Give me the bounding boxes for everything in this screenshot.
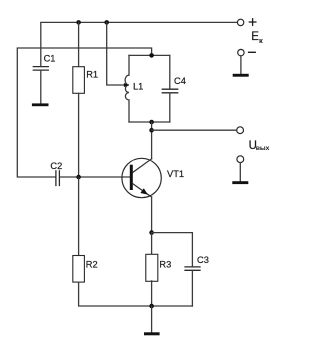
wire: R3 bottom lead [151,281,153,306]
svg-text:E: E [251,31,259,43]
inductor L1 [125,55,129,122]
resistor R2 [73,256,85,283]
svg-text:R1: R1 [86,69,98,79]
wire: top supply rail [41,22,238,66]
ground (- terminal) [233,74,249,77]
svg-text:L1: L1 [133,82,143,92]
capacitor C3 [185,267,200,270]
wire: tank top side [129,54,170,56]
transistor VT1 [122,158,161,197]
wire: tank bottom to collector [151,122,153,159]
wire: base node to R2 [78,177,80,256]
wire: emitter down [151,197,153,233]
svg-text:к: к [259,36,263,45]
capacitor C2 [56,171,60,186]
wire: output node to U terminal [152,129,237,131]
junction: tank top node [149,53,154,58]
svg-text:R3: R3 [159,259,171,269]
junction: collector / output node [149,128,154,133]
terminal: - supply [238,49,244,55]
wire: ground drop [151,306,153,332]
label + [249,19,256,26]
junction: base node / R1-R2 [76,175,81,180]
arrowhead: L1 tap [124,83,128,87]
wire: return terminal to ground [239,163,241,182]
svg-text:VT1: VT1 [167,169,184,179]
wire: tank top to C2 (feedback loop) [17,48,151,177]
junction: emitter node [149,230,154,235]
wire: R3 top lead [151,233,153,255]
resistor R1 [73,67,85,94]
wire: emitter node to C3 branch [152,233,193,267]
terminal: output U [237,127,244,134]
capacitor C4 [169,55,171,89]
wire: tank bottom side [129,121,170,123]
wire: C3 to bottom rail [191,271,193,307]
wire: R1 bottom lead to base node [78,93,80,177]
junction: top rail / R1 [76,20,81,25]
label - [249,51,256,53]
ground (main) [144,332,160,335]
wire: C2 to base [60,176,130,178]
terminal: output return [237,156,244,163]
junction: tank bottom node [149,120,154,125]
junction: bottom rail / ground [149,304,154,309]
svg-text:вых: вых [256,145,270,152]
ground (return terminal) [232,181,248,184]
svg-text:C1: C1 [44,54,56,64]
wire: C1 to ground [40,71,42,104]
wire: L1 tap feed from supply [107,22,125,85]
svg-text:C3: C3 [197,255,209,265]
capacitor C1 [33,67,48,71]
ground (C1) [32,103,49,106]
wire: R1 top lead [78,22,80,66]
wire: - terminal to ground [240,56,242,74]
terminal: + supply [237,19,243,25]
resistor R3 [146,254,158,281]
junction: top rail / L1 tap [104,20,109,25]
svg-text:C2: C2 [50,161,62,171]
svg-text:R2: R2 [86,259,98,269]
wire: R2 bottom lead and bottom rail [79,282,193,306]
svg-text:C4: C4 [174,76,186,86]
